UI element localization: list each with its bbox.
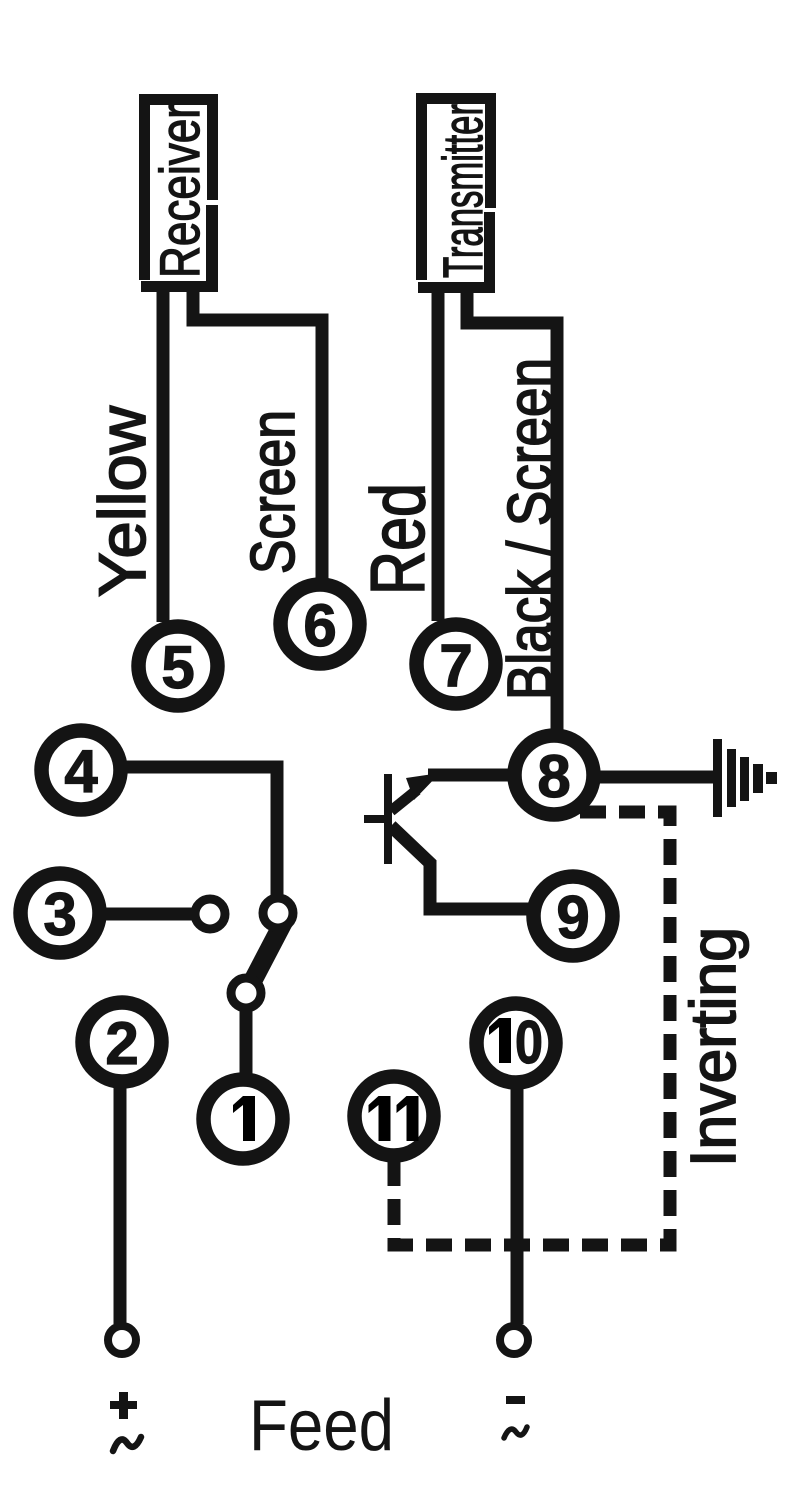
wire transmitter to 8 (black/screen) <box>467 290 557 732</box>
terminal 3 <box>21 874 100 953</box>
feed terminal - <box>500 1326 528 1354</box>
tilde right <box>504 1427 527 1438</box>
transmitter box <box>416 93 496 293</box>
terminal 8 <box>515 736 594 815</box>
tilde left <box>113 1437 141 1451</box>
svg-text:Receiver: Receiver <box>148 104 211 278</box>
svg-text:Transmitter: Transmitter <box>431 104 494 278</box>
svg-text:Inverting: Inverting <box>677 927 749 1167</box>
plus sign <box>110 1401 137 1409</box>
wire 8 to ground <box>599 771 716 784</box>
terminal 9 <box>534 877 613 956</box>
svg-text:Screen: Screen <box>239 410 308 574</box>
terminal 11 <box>355 1077 434 1156</box>
wire 10 to feed - <box>511 1088 524 1324</box>
wire receiver to 6 <box>193 290 322 580</box>
digit 1 of terminal 1 <box>233 1096 255 1141</box>
digits 11 of terminal 11 <box>369 1096 391 1141</box>
terminal digits <box>43 592 589 1141</box>
transistor base lead <box>364 815 384 823</box>
dashed inverting link: 8 to 11 <box>394 812 670 1245</box>
wire emitter to 8 <box>428 769 510 782</box>
svg-text:3: 3 <box>43 881 76 948</box>
switch contacts <box>195 898 293 1008</box>
digits 10 of terminal 10 <box>489 1018 511 1063</box>
svg-text:5: 5 <box>161 634 194 701</box>
wire transmitter to 7 <box>432 292 445 621</box>
terminal 7 <box>417 625 496 704</box>
transistor emitter arrow <box>406 773 440 800</box>
contact C <box>231 978 261 1008</box>
switch lever <box>249 921 284 988</box>
feed terminal + <box>108 1326 136 1354</box>
wire 4 to switch contact <box>125 767 277 896</box>
wire 2 to feed + <box>114 1086 127 1324</box>
svg-text:Red: Red <box>356 483 441 595</box>
svg-text:9: 9 <box>556 884 589 951</box>
wire collector to 9 <box>391 826 529 909</box>
wire 3 to contact A <box>104 908 192 921</box>
terminal 2 <box>83 1003 162 1082</box>
terminal 6 <box>281 585 360 664</box>
svg-text:7: 7 <box>439 632 472 699</box>
svg-text:Yellow: Yellow <box>85 406 159 597</box>
svg-text:Feed: Feed <box>249 1386 394 1466</box>
svg-text:6: 6 <box>303 592 336 659</box>
terminal 10 <box>477 1004 556 1083</box>
transistor Q1 <box>364 773 440 864</box>
svg-text:Black / Screen: Black / Screen <box>496 358 565 700</box>
svg-text:0: 0 <box>515 1009 543 1076</box>
contact B <box>263 898 293 928</box>
terminal 1 <box>204 1080 283 1159</box>
terminal circles <box>21 585 613 1159</box>
receiver box <box>139 94 218 292</box>
wire contact C to 1 <box>240 1009 253 1076</box>
svg-text:8: 8 <box>537 743 570 810</box>
rotated labels <box>85 358 749 1167</box>
minus sign <box>506 1396 525 1404</box>
feed labels <box>110 1386 527 1466</box>
terminal 5 <box>139 627 218 706</box>
terminal 4 <box>42 731 121 810</box>
contact A <box>195 899 225 929</box>
svg-text:4: 4 <box>64 738 98 805</box>
wire receiver to 5 <box>157 290 170 622</box>
svg-text:2: 2 <box>105 1010 138 1077</box>
transistor base bar <box>384 774 392 864</box>
ground <box>713 739 777 817</box>
transistor emitter lead <box>391 790 417 811</box>
